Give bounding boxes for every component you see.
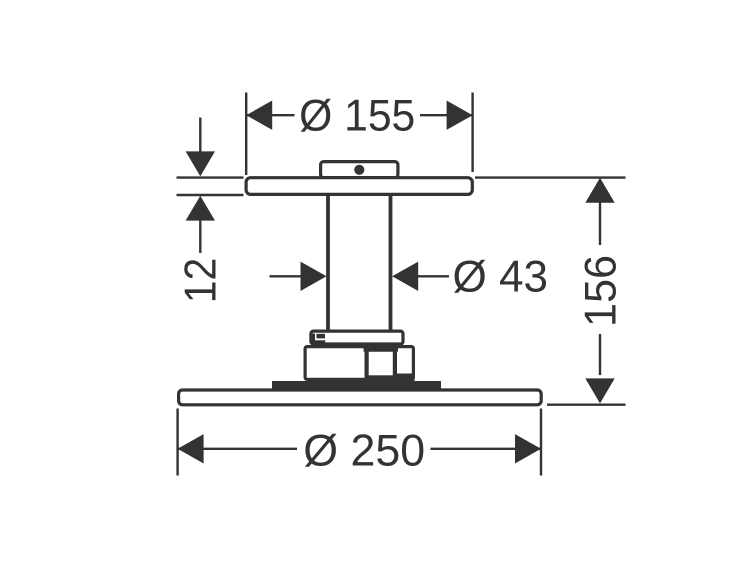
svg-text:156: 156 — [576, 255, 626, 327]
svg-text:12: 12 — [176, 258, 226, 304]
svg-text:Ø 155: Ø 155 — [299, 92, 415, 141]
svg-text:Ø 250: Ø 250 — [303, 427, 425, 476]
svg-text:Ø 43: Ø 43 — [452, 253, 547, 302]
